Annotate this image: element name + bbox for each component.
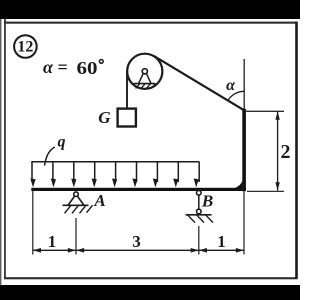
bottom frame border line — [4, 277, 298, 279]
dim arrow right of last segment 1 — [236, 248, 244, 253]
rope (inclined, pulley to post top) — [154, 56, 245, 111]
height dim arrow down — [275, 182, 279, 190]
load arrow 6 — [132, 162, 137, 187]
svg-text:α: α — [226, 77, 236, 94]
height dim arrow up — [275, 112, 279, 120]
dim arrow right of segment 1 — [68, 248, 76, 253]
rope (vertical, pulley to weight) — [126, 70, 128, 110]
extension line under A — [75, 218, 77, 255]
top frame border line — [4, 22, 298, 24]
q leader curve — [45, 147, 55, 166]
left frame border line — [4, 19, 6, 278]
angle alpha arc — [228, 91, 244, 101]
pulley wheel — [127, 54, 162, 89]
svg-text:1: 1 — [217, 232, 226, 251]
left page-edge shadow — [0, 19, 1, 285]
pulley axle pivot — [134, 69, 156, 89]
load arrow 9 — [194, 162, 200, 187]
dim arrow right of segment 3 — [191, 248, 199, 253]
top black scan band — [0, 0, 300, 19]
extension line under post — [243, 191, 245, 255]
svg-text:60: 60 — [77, 58, 98, 78]
support B (roller link) — [186, 191, 214, 223]
svg-text:3: 3 — [132, 232, 141, 251]
svg-text:G: G — [98, 108, 111, 127]
post-beam fillet — [234, 181, 242, 189]
svg-text:B: B — [201, 192, 213, 211]
weight G box — [118, 109, 136, 127]
load arrow 7 — [153, 162, 158, 187]
bottom black scan band — [0, 285, 300, 300]
svg-text:12: 12 — [17, 39, 33, 56]
distributed load line — [31, 161, 199, 163]
svg-text:1: 1 — [48, 232, 57, 251]
dim arrow left of last segment 1 — [199, 248, 207, 253]
load arrow 2 — [51, 162, 56, 187]
load arrow 1 — [30, 162, 35, 187]
load arrow 8 — [173, 162, 178, 187]
right frame border line — [295, 22, 298, 279]
load arrow 5 — [112, 162, 117, 187]
vertical reference line above post — [243, 59, 245, 110]
extension line under B — [198, 226, 200, 255]
extension line left end — [32, 191, 34, 255]
svg-text:α =: α = — [43, 57, 68, 77]
post (thick vertical member) — [242, 109, 246, 191]
beam — [31, 188, 246, 191]
label alpha = 60 deg — [43, 57, 103, 78]
svg-text:q: q — [58, 134, 66, 151]
dim arrow left of segment 1 — [33, 248, 41, 253]
support A (pin) — [63, 192, 93, 213]
height dimension line 2 — [277, 112, 279, 191]
circled task number 12 — [14, 35, 37, 58]
dim arrow left of segment 3 — [76, 248, 84, 253]
svg-text:2: 2 — [281, 141, 291, 163]
svg-text:A: A — [93, 191, 105, 210]
bottom dimension line — [33, 249, 244, 251]
extension line top of height dim — [246, 110, 284, 112]
load arrow 3 — [71, 162, 76, 187]
load arrow 4 — [92, 162, 97, 187]
extension line bottom of height dim — [247, 190, 284, 192]
